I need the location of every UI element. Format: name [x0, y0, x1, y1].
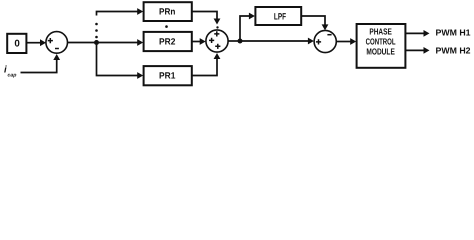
svg-text:0: 0 [14, 38, 20, 49]
svg-text:cap: cap [8, 72, 17, 78]
svg-text:LPF: LPF [274, 12, 286, 22]
svg-text:CONTROL: CONTROL [366, 36, 396, 46]
wire PR2 to S2 [192, 38, 206, 45]
wire node B to S3 (positive input) [240, 38, 314, 45]
wire node B up to LPF [240, 13, 255, 41]
label i_cap [4, 65, 16, 79]
summing junction S2 [206, 30, 228, 52]
node A (junction dot) [94, 40, 99, 45]
wire i_cap to S1 (feedback input) [21, 54, 61, 73]
label PWM H1 [436, 28, 471, 38]
wire node A down to PR1 [97, 43, 144, 79]
wire PRn to S2 (down into top) [192, 12, 221, 25]
wire REF to S1 [26, 39, 46, 46]
wire PR1 to S2 (up into bottom) [192, 53, 221, 76]
svg-text:PRn: PRn [159, 7, 175, 17]
svg-text:MODULE: MODULE [366, 46, 395, 56]
svg-text:PWM H1: PWM H1 [436, 28, 471, 38]
wire S2 to node B [228, 40, 240, 42]
wire node A to PR2 [97, 39, 144, 46]
ellipsis dot between PRn and PR2 [165, 25, 168, 28]
block PRn [144, 2, 192, 21]
ellipsis dot above S2 [216, 26, 218, 28]
summing junction S1 [46, 32, 68, 54]
svg-text:PWM H2: PWM H2 [436, 46, 471, 56]
block U1 PHASE CONTROL MODULE [357, 24, 406, 68]
svg-text:PHASE: PHASE [369, 26, 392, 36]
svg-text:PR1: PR1 [159, 71, 175, 81]
block PR2 [144, 32, 192, 51]
wire output PWM H1 [405, 30, 429, 37]
block PR1 [144, 66, 192, 85]
wire S3 to PHASE CONTROL MODULE [336, 38, 356, 45]
summing junction S3 [314, 30, 336, 52]
wire LPF to S3 (down into top, negative) [301, 16, 328, 30]
wire node A up to PRn (with ellipsis break) [95, 8, 143, 42]
svg-text:PR2: PR2 [159, 37, 175, 47]
wire output PWM H2 [405, 47, 429, 54]
wire S1 to node A [68, 42, 97, 44]
block REF (value 0) [7, 34, 26, 53]
label PWM H2 [436, 46, 471, 56]
block LPF [255, 7, 301, 25]
node B (junction dot) [238, 39, 243, 44]
